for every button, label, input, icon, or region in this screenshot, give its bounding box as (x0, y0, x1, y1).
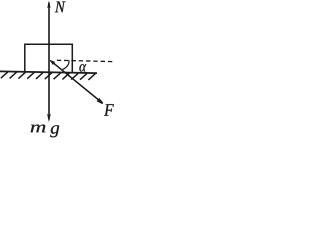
arrowhead of mg (down) (47, 114, 51, 123)
ground hatching (1, 72, 96, 80)
arrowhead of N (up) (47, 1, 50, 8)
label F (104, 104, 114, 116)
angle arc (62, 60, 69, 69)
arrowhead of F at block (up-left) (49, 60, 55, 65)
N / mg arrow shaft (48, 3, 50, 120)
dashed horizontal reference line (57, 60, 113, 61)
force F line (51, 61, 102, 102)
label alpha (79, 64, 86, 72)
arrowhead of F at tip (down-right) (97, 98, 104, 104)
ground (0, 71, 97, 73)
block (25, 44, 73, 72)
label mg (31, 125, 60, 138)
label N (55, 2, 66, 13)
